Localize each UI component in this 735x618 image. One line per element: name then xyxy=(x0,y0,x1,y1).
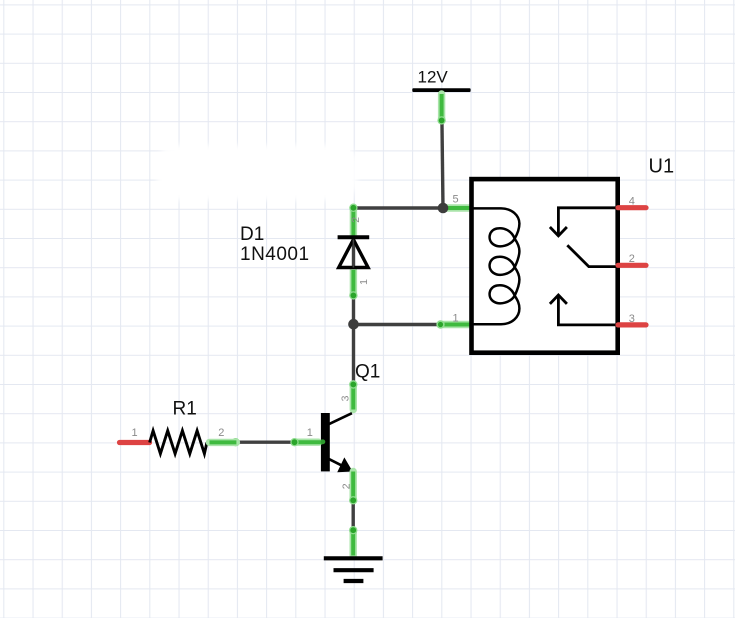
svg-text:4: 4 xyxy=(629,195,635,207)
svg-text:1: 1 xyxy=(453,313,459,325)
diode D1 leads (green) xyxy=(349,204,357,300)
svg-text:Q1: Q1 xyxy=(355,362,380,383)
wire base row horizontal xyxy=(207,441,321,444)
node junction lower (diode / relay pin1 / collector) xyxy=(348,319,469,330)
svg-text:1N4001: 1N4001 xyxy=(240,244,310,265)
diode D1 symbol xyxy=(338,237,370,267)
svg-text:2: 2 xyxy=(218,427,224,439)
label Q1 xyxy=(355,362,380,383)
label U1 xyxy=(649,156,675,178)
resistor R1 pin 1 label xyxy=(132,427,138,439)
resistor R1 pin 2 leg (green) xyxy=(210,439,237,446)
svg-text:U1: U1 xyxy=(649,156,675,178)
wire lower horizontal junction to relay pin 1 xyxy=(354,323,469,326)
relay pin 5 label xyxy=(453,194,459,206)
relay U1 box xyxy=(472,179,618,353)
erased white patch over grid xyxy=(157,145,357,200)
transistor base pin 1 label xyxy=(307,427,313,439)
transistor Q1 collector leg xyxy=(349,380,357,409)
wire emitter to ground xyxy=(352,470,355,557)
svg-text:5: 5 xyxy=(453,194,459,206)
svg-text:3: 3 xyxy=(339,395,351,401)
svg-text:1: 1 xyxy=(132,427,138,439)
transistor pin 3 label xyxy=(339,395,351,401)
svg-text:1: 1 xyxy=(307,427,313,439)
transistor emitter leg (green) xyxy=(349,472,357,505)
resistor R1 zigzag xyxy=(150,431,207,454)
svg-text:2: 2 xyxy=(350,217,362,223)
svg-text:D1: D1 xyxy=(240,224,264,245)
svg-text:R1: R1 xyxy=(173,399,197,420)
ground symbol xyxy=(324,558,383,581)
resistor pin 2 label xyxy=(218,427,224,439)
wire 12V supply to junction xyxy=(442,92,443,208)
svg-text:2: 2 xyxy=(629,253,635,265)
diode pin 2 label xyxy=(350,217,362,223)
svg-text:12V: 12V xyxy=(418,68,449,87)
relay U1 switch contacts xyxy=(550,208,618,325)
transistor Q1 symbol xyxy=(321,413,352,472)
ground leg (green) xyxy=(349,526,357,556)
wire diode cathode vertical xyxy=(352,205,355,239)
power symbol 12V xyxy=(412,68,470,125)
relay pin 1 label xyxy=(453,313,459,325)
wire diode anode to junction to collector xyxy=(352,239,355,385)
relay pin 2 stub xyxy=(618,263,646,268)
relay pin 4 label xyxy=(629,195,635,207)
svg-text:1: 1 xyxy=(358,279,370,285)
diode pin 1 label xyxy=(358,279,370,285)
node junction top (12V / diode / relay pin5) xyxy=(438,203,470,214)
svg-text:3: 3 xyxy=(629,313,635,325)
relay U1 coil loops xyxy=(470,208,519,324)
relay pin 2 label xyxy=(629,253,635,265)
relay pin 3 stub xyxy=(618,322,646,327)
label R1 xyxy=(173,399,197,420)
wire top horizontal diode to relay pin 5 xyxy=(354,206,469,209)
relay pin 4 stub xyxy=(618,205,646,210)
resistor R1 red pin stub xyxy=(120,440,150,445)
label D1 / 1N4001 xyxy=(240,224,310,265)
transistor pin 2 label xyxy=(341,483,353,489)
transistor base leg (green) xyxy=(231,438,325,446)
svg-text:2: 2 xyxy=(341,483,353,489)
relay pin 3 label xyxy=(629,313,635,325)
